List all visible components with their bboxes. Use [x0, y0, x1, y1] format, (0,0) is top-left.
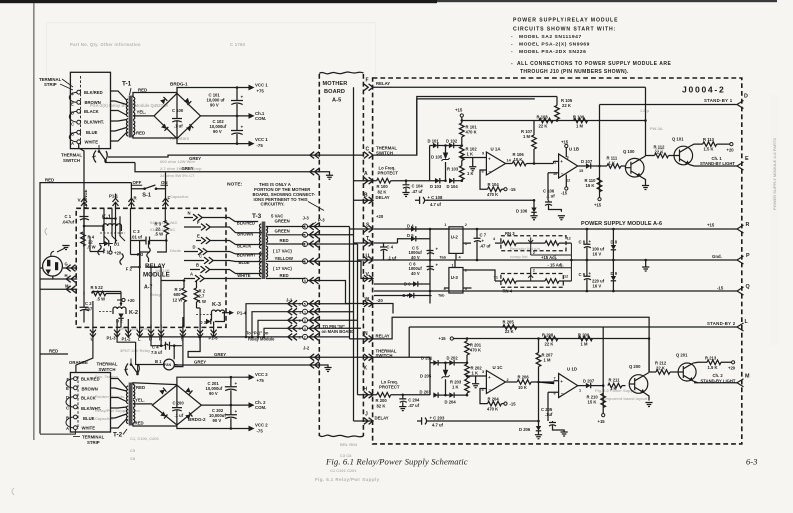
diode D203 — [420, 390, 442, 398]
chevrons grey line 4 — [310, 362, 319, 369]
svg-text:- 15 Adj.: - 15 Adj. — [548, 263, 564, 268]
diode D4 — [407, 223, 416, 231]
terminal B — [71, 130, 81, 136]
svg-text:12: 12 — [567, 237, 571, 241]
svg-text:L: L — [138, 337, 141, 342]
T-3 primary wire color labels — [237, 220, 256, 278]
svg-text:Tab: Tab — [438, 294, 445, 298]
svg-text:STRIP: STRIP — [44, 82, 57, 87]
svg-text:THERMAL: THERMAL — [97, 362, 118, 367]
svg-text:1 M: 1 M — [523, 134, 530, 139]
transformer T-3 — [252, 213, 268, 279]
svg-text:C1 C101 C201: C1 C101 C201 — [330, 468, 357, 473]
svg-text:DELAY: DELAY — [375, 415, 389, 420]
wire: lower relay line — [373, 317, 649, 372]
chevrons on grey line 2 — [310, 168, 319, 175]
svg-text:R 204: R 204 — [488, 397, 500, 402]
svg-text:+75: +75 — [257, 89, 265, 94]
connector pin D (STAND-BY 1) — [704, 94, 748, 109]
node VCC 2 +75 — [246, 372, 268, 383]
label Ch.2 STAND-BY LIGHT — [701, 373, 736, 383]
svg-text:22 K: 22 K — [545, 342, 554, 347]
svg-text:D 201: D 201 — [421, 356, 433, 361]
svg-text:4.7 uf: 4.7 uf — [430, 202, 442, 207]
label TO PIN W on MAIN BOARD — [322, 324, 355, 334]
svg-text:4: 4 — [304, 327, 306, 331]
connector pin E (stand-by light) — [735, 156, 750, 170]
svg-text:1 M: 1 M — [576, 124, 583, 129]
terminal D (bottom strip) — [66, 395, 77, 400]
svg-text:NOTE:: NOTE: — [227, 182, 243, 188]
node +20 (R213) — [728, 361, 736, 371]
chassis ground at plug — [57, 246, 70, 253]
wire: line y98.9 and thermal riser — [417, 97, 557, 156]
capacitor C204 — [399, 394, 420, 411]
svg-text:RELAY: RELAY — [376, 334, 390, 339]
capacitor C4 (7.5 uf) — [151, 334, 182, 355]
wire: left hooks on terminals — [69, 92, 77, 142]
resistor R201 — [465, 339, 482, 363]
potentiometer network RN3 — [493, 231, 571, 255]
svg-text:R 208: R 208 — [542, 332, 554, 337]
svg-text:A-5: A-5 — [332, 98, 341, 104]
connector pin R (+15) — [707, 222, 750, 233]
svg-text:THERMAL: THERMAL — [61, 153, 82, 158]
node -15 (R204) — [504, 401, 516, 406]
svg-text:A: A — [190, 272, 193, 277]
node N / RELAY (lower) — [364, 331, 390, 342]
svg-text:-75: -75 — [257, 143, 264, 148]
svg-text:STAND-BY LIGHT: STAND-BY LIGHT — [701, 378, 736, 383]
wire: grey line 2 (to board ground) — [135, 163, 330, 175]
svg-text:R 100: R 100 — [377, 184, 389, 189]
svg-text:R 213: R 213 — [705, 355, 717, 360]
wire: J feed from J-1 pin 1 — [308, 312, 374, 421]
terminal C — [71, 120, 81, 126]
svg-text:RN 3: RN 3 — [505, 231, 515, 236]
svg-text:1: 1 — [304, 310, 306, 314]
wire: J-1 pin 4 stub — [308, 327, 362, 329]
node VCC 1 +75 — [246, 83, 268, 94]
svg-text:C 100: C 100 — [172, 108, 184, 113]
svg-text:.47 uf: .47 uf — [480, 244, 492, 249]
svg-text:22 K: 22 K — [539, 124, 548, 129]
junction dots top channel — [556, 119, 559, 122]
svg-text:PROTECT: PROTECT — [378, 171, 399, 176]
svg-text:STAND-BY 1: STAND-BY 1 — [704, 98, 733, 103]
diode D103 — [430, 178, 446, 189]
node +15 (top channel) — [455, 108, 463, 121]
svg-text:BROWN: BROWN — [85, 100, 101, 105]
svg-text:2: 2 — [533, 251, 535, 255]
wire: J-1 pin 2 stub — [308, 336, 350, 338]
wire: grey line 1 (to C) — [108, 155, 363, 157]
svg-text:15 K: 15 K — [586, 183, 595, 188]
junction dots on C101/C102 bus — [236, 86, 239, 89]
svg-text:YEL.: YEL. — [137, 110, 147, 115]
node M — [65, 284, 76, 293]
svg-text:D 204: D 204 — [445, 400, 457, 405]
node +15 below R210 — [598, 414, 606, 424]
svg-text:R 209: R 209 — [578, 332, 590, 337]
svg-text:C 4: C 4 — [387, 245, 394, 250]
svg-text:R: R — [746, 222, 750, 228]
svg-text:YELLOW: YELLOW — [275, 256, 294, 261]
svg-text:VCC 2: VCC 2 — [255, 423, 268, 428]
relay module bottom terminal S — [180, 325, 186, 342]
connector J-3 / P-3 — [303, 216, 326, 227]
svg-text:D 105: D 105 — [431, 155, 443, 160]
svg-text:K: K — [364, 366, 368, 372]
svg-text:D 9: D 9 — [611, 271, 618, 276]
J-3 pin 5 — [303, 223, 319, 230]
node Ch.1 COM — [246, 111, 266, 121]
wire: grey line 4 (lower, to board ground) — [174, 365, 328, 368]
svg-text:+15: +15 — [561, 140, 569, 145]
op-amp U1D — [554, 367, 582, 398]
svg-text:M: M — [745, 374, 750, 380]
svg-text:7: 7 — [554, 377, 556, 381]
svg-text:BLUE: BLUE — [83, 416, 95, 421]
wire: BRDG-2 mid output — [201, 404, 246, 406]
svg-text:T-2: T-2 — [113, 432, 123, 439]
diode D207 — [583, 379, 603, 389]
svg-text:S-1: S-1 — [142, 192, 151, 198]
node +15 below R110 — [594, 198, 602, 208]
relay K-1 — [100, 215, 125, 242]
label Ch.1 STAND-BY LIGHT — [700, 156, 735, 166]
svg-text:-15: -15 — [510, 187, 517, 192]
wire: stand-by 1 line to D — [600, 104, 736, 106]
svg-text:22 K: 22 K — [505, 329, 514, 334]
capacitor C5 — [409, 246, 439, 260]
resistor R111 — [600, 156, 626, 169]
wire: S-1 left feed from RED wire — [131, 173, 165, 189]
wire: left hooks on bottom terminals — [40, 379, 75, 435]
svg-text:+20: +20 — [128, 298, 136, 303]
svg-text:D 102: D 102 — [446, 139, 458, 144]
capacitor C 102 — [210, 116, 244, 144]
svg-text:C 204: C 204 — [408, 398, 420, 403]
note pointer line — [308, 202, 324, 211]
svg-text:+15: +15 — [455, 108, 463, 113]
relay module bottom terminal U2 — [148, 325, 154, 342]
wire: bridge + output to VCC1 +75 — [177, 88, 246, 94]
diode D5 — [406, 233, 431, 241]
svg-text:+: + — [235, 409, 238, 414]
diode D2 — [116, 314, 124, 324]
svg-text:12 W: 12 W — [173, 298, 183, 303]
svg-text:D 207: D 207 — [583, 379, 595, 384]
chevrons on grey line 1 — [310, 152, 319, 159]
svg-text:+ C 203: + C 203 — [430, 416, 445, 421]
wire: T-2 secondary to BRDG-2 — [133, 383, 177, 426]
terminal F (bottom strip) — [67, 377, 78, 382]
svg-text:U 1B: U 1B — [569, 147, 579, 152]
svg-text:+: + — [241, 125, 244, 130]
transformer T-1 — [122, 81, 135, 138]
junction dots on C201/C202 bus — [230, 376, 233, 379]
diode D101 — [428, 139, 446, 149]
capacitor C106 — [543, 189, 565, 220]
svg-text:1 M: 1 M — [544, 358, 551, 363]
node T — [364, 236, 373, 246]
label RELAY MODULE A-7 — [143, 263, 170, 291]
wire: N feed from J-1 pin 5 — [308, 304, 374, 339]
svg-text:-20: -20 — [377, 298, 384, 303]
svg-text:( 17 VAC): ( 17 VAC) — [273, 249, 292, 254]
svg-text:1: 1 — [304, 234, 306, 238]
svg-text:D 8: D 8 — [611, 240, 618, 245]
wire: grey line 3 (lower, to K) — [174, 334, 373, 365]
svg-text:Ch. 2: Ch. 2 — [713, 373, 724, 378]
resistor R113 — [697, 137, 730, 152]
svg-text:+ C 108: + C 108 — [428, 195, 443, 200]
transformer T-2 — [113, 383, 135, 439]
node +20 (K-1) — [109, 246, 122, 256]
line cord plug (left circle device) — [43, 251, 63, 276]
diode D206 — [519, 421, 542, 439]
ground at U1A — [469, 158, 476, 171]
terminal E (bottom strip) — [66, 386, 77, 391]
bridge rectifier BRDG-2 — [152, 385, 206, 425]
svg-text:Q 100: Q 100 — [623, 149, 635, 154]
svg-text:R 200: R 200 — [376, 398, 388, 403]
capacitor C 101 — [207, 88, 244, 116]
node H — [65, 273, 76, 282]
node S / +2D — [364, 214, 384, 232]
svg-text:Component board layout: Component board layout — [600, 396, 648, 401]
resistor R112 — [646, 145, 675, 158]
svg-text:R 205: R 205 — [503, 320, 515, 325]
label TERMINAL STRIP (top) — [39, 77, 73, 90]
svg-text:2: 2 — [304, 336, 306, 340]
wire: bridge right to Ch1 COM — [201, 115, 247, 117]
ground on mother board (bottom) — [324, 368, 331, 372]
svg-text:2: 2 — [533, 269, 535, 273]
switch S-1 — [132, 180, 168, 198]
svg-text:10 K: 10 K — [514, 157, 523, 162]
diode D8 — [611, 229, 618, 260]
svg-text:R 104: R 104 — [488, 182, 500, 187]
svg-text:+: + — [482, 239, 485, 244]
wire: main bias line y120.5 — [462, 120, 646, 122]
svg-text:P1-1: P1-1 — [109, 194, 119, 199]
svg-text:RED: RED — [138, 87, 147, 92]
capacitor C9 — [579, 260, 605, 291]
node VCC 1 -75 — [246, 137, 268, 148]
terminal A (bottom strip) — [66, 426, 77, 431]
svg-text:H: H — [65, 273, 68, 278]
J-3 pin 1 — [303, 231, 319, 238]
capacitor C 200 (in bridge 2) — [172, 385, 184, 425]
node B / DELAY — [364, 193, 390, 204]
svg-text:COM.: COM. — [255, 116, 266, 121]
relay K-3 — [196, 302, 224, 317]
svg-text:C 200: C 200 — [173, 400, 185, 405]
svg-text:BROWN: BROWN — [237, 232, 253, 237]
svg-text:C 7: C 7 — [480, 233, 487, 238]
svg-text:1.8 p: 1.8 p — [640, 108, 650, 113]
resistor R200 — [373, 393, 430, 409]
svg-text:WHITE: WHITE — [237, 273, 250, 278]
node -15 below U1B — [561, 175, 568, 196]
svg-text:STAND-BY 2: STAND-BY 2 — [707, 321, 736, 326]
wire: E line from Q101 emitter — [694, 165, 735, 167]
diode D3 — [200, 319, 211, 325]
svg-text:+: + — [560, 379, 563, 384]
node F / RELAY output of mother board — [364, 78, 391, 91]
node +15 (bottom channel) — [439, 336, 454, 341]
fuse F3 — [137, 248, 150, 258]
diode D202 — [446, 356, 467, 366]
node R (S-1 left terminal) — [128, 189, 144, 209]
resistor R107 — [521, 121, 536, 165]
svg-text:90 V: 90 V — [210, 103, 219, 108]
svg-text:15 K: 15 K — [588, 400, 597, 405]
svg-text:GREY: GREY — [214, 352, 226, 357]
bridge rectifier BRDG-1 — [154, 82, 201, 139]
capacitor C1 — [62, 208, 89, 240]
wire: R105 riser / collector bus — [645, 87, 647, 155]
label To P-1 on Relay Module — [246, 331, 275, 342]
svg-text:1 K: 1 K — [610, 386, 617, 391]
fuse F2 — [120, 254, 133, 272]
wire: U1C + input — [467, 375, 486, 377]
svg-text:P1-4: P1-4 — [237, 311, 247, 316]
wire: B pin stub — [354, 199, 374, 201]
potentiometer network RN4 — [494, 268, 572, 294]
svg-text:R 103: R 103 — [447, 167, 459, 172]
svg-text:R 211: R 211 — [609, 378, 621, 383]
resistor R4 — [81, 232, 96, 250]
capacitor C104 — [402, 179, 423, 196]
svg-text:Fig. 6.1 Relay/Power Supply S: Fig. 6.1 Relay/Power Supply Schematic — [325, 457, 468, 467]
wire: relay line y87 — [373, 86, 646, 88]
svg-text:BLK/RED: BLK/RED — [84, 90, 103, 95]
svg-text:GREEN: GREEN — [275, 219, 290, 224]
chevrons grey line 3 — [310, 354, 319, 361]
svg-text:+15: +15 — [598, 419, 606, 424]
node C (to T-3) — [184, 254, 262, 264]
svg-text:16 V: 16 V — [593, 284, 602, 289]
svg-text:+: + — [488, 375, 491, 380]
svg-text:470 K: 470 K — [487, 406, 498, 411]
junction dots middle — [586, 228, 589, 231]
svg-text:9: 9 — [482, 152, 484, 156]
svg-text:-75: -75 — [257, 429, 264, 434]
svg-text:BLK/WHT.: BLK/WHT. — [84, 120, 104, 125]
thermal switch (bottom) — [97, 342, 140, 376]
node +2D (R113) — [727, 143, 735, 153]
svg-text:470 K: 470 K — [466, 130, 477, 135]
wire: diode network bus — [430, 146, 435, 181]
svg-text:+: + — [589, 239, 592, 244]
svg-text:T: T — [198, 337, 201, 342]
diode D106 — [516, 200, 538, 219]
svg-text:CIRCUITRY.: CIRCUITRY. — [261, 202, 285, 207]
svg-text:+: + — [235, 381, 238, 386]
capacitor C205 — [541, 407, 568, 436]
svg-text:BRDG-2: BRDG-2 — [188, 417, 206, 422]
node G — [65, 262, 76, 272]
connector pin M (stand-by light 2) — [735, 374, 751, 387]
svg-text:C 1760: C 1760 — [230, 42, 246, 47]
svg-text:C: C — [71, 122, 74, 127]
wire: W feed from J-3 pin 4 — [308, 281, 374, 304]
wire: orange wire bottom — [76, 334, 136, 373]
op-amp U1A — [482, 147, 512, 176]
diode D1 — [99, 241, 120, 247]
terminal D — [71, 109, 81, 115]
svg-text:−: − — [489, 169, 492, 174]
svg-text:MOTHER: MOTHER — [323, 81, 348, 87]
wire: delay line to C106/D106 — [427, 199, 534, 201]
wire: T feed from J-3 pin 1 — [308, 235, 374, 243]
wire: BRDG-2 - output — [177, 425, 246, 429]
svg-text:3: 3 — [299, 319, 301, 323]
svg-text:.01 uf: .01 uf — [131, 235, 143, 240]
NOTE text block — [227, 182, 316, 207]
svg-text:+: + — [241, 95, 244, 100]
wire: bridge - output to VCC1 -75 — [177, 139, 246, 144]
svg-text:DELAY: DELAY — [376, 195, 390, 200]
J-3 pin 3 — [303, 258, 319, 265]
transistor Q100 — [623, 149, 649, 190]
junction dots inside relay module — [83, 225, 86, 228]
wire: plug to relay module (3 wires) — [40, 268, 77, 289]
svg-text:SWITCH: SWITCH — [99, 367, 116, 372]
svg-text:D 206: D 206 — [519, 427, 531, 432]
J-1 pin 1 — [299, 308, 319, 315]
J-1 pin 5 — [299, 300, 319, 307]
svg-text:+20: +20 — [376, 214, 384, 219]
node N (to T-3) — [184, 211, 258, 222]
svg-text:FAN: FAN — [164, 363, 171, 367]
terminal E — [71, 100, 81, 106]
capacitor C 201 — [206, 377, 238, 405]
svg-text:BRDG-1: BRDG-1 — [170, 82, 188, 87]
wire: adj lines — [531, 243, 572, 281]
svg-text:P1-2: P1-2 — [122, 337, 132, 342]
svg-text:U-2: U-2 — [451, 235, 459, 240]
node C / THERMAL SWITCH — [364, 146, 398, 159]
svg-text:BLACK: BLACK — [237, 243, 251, 248]
svg-text:U-3: U-3 — [451, 275, 459, 280]
J-1 pin 3 — [299, 317, 319, 324]
svg-text:+20: +20 — [728, 366, 736, 371]
svg-text:.1 uf: .1 uf — [388, 256, 397, 261]
svg-text:J: J — [365, 412, 368, 418]
svg-text:.1uf: .1uf — [545, 412, 553, 417]
svg-text:-15: -15 — [510, 401, 517, 406]
resistor R105 — [555, 97, 573, 121]
connector pin P (Gnd.) — [712, 253, 750, 264]
svg-text:E: E — [745, 156, 749, 162]
node -15 (R104) — [504, 187, 516, 192]
svg-text:C: C — [199, 254, 202, 259]
svg-text:TERMINAL: TERMINAL — [82, 435, 105, 440]
transistor Q200 — [629, 364, 653, 407]
svg-text:D 205: D 205 — [420, 374, 432, 379]
fan B1 — [136, 334, 183, 370]
note block: POWER SUPPLY/RELAY MODULE header — [511, 17, 672, 75]
svg-text:D: D — [193, 245, 196, 250]
wire: -15 rail — [374, 290, 735, 292]
svg-text:−: − — [561, 172, 564, 177]
node +20 (K-2) — [117, 298, 135, 303]
wire: U1C - input / feedback — [480, 389, 488, 404]
